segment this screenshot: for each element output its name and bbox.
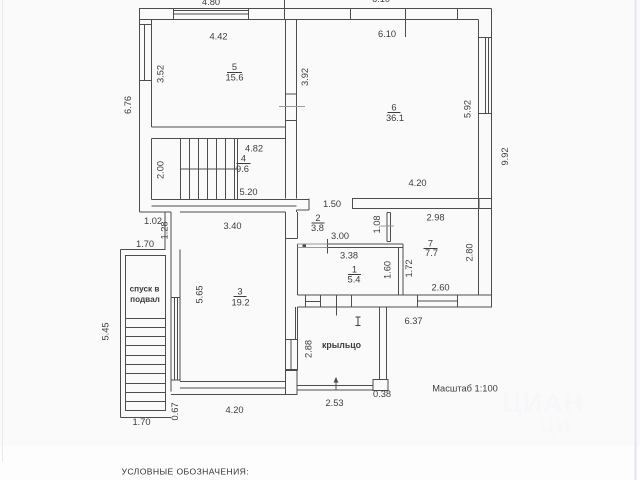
svg-text:7: 7 [428, 239, 433, 249]
basement stair treads [126, 318, 166, 320]
bottom wall top line [298, 294, 493, 296]
window W2 left wall cap top [140, 24, 152, 26]
dimension tick top [284, 0, 286, 20]
svg-text:19.2: 19.2 [231, 298, 249, 308]
faint page edge line right [635, 0, 637, 480]
room 1 top wall inner [328, 247, 404, 249]
window W3 cap top [171, 297, 180, 299]
window W5 panes [485, 38, 487, 114]
svg-text:ЦИ: ЦИ [540, 415, 571, 437]
svg-text:5.65: 5.65 [195, 285, 205, 303]
svg-text:5: 5 [232, 62, 237, 72]
wall top band outer [139, 8, 492, 10]
room 3 left wall outer [170, 250, 172, 392]
wall band left box end [308, 199, 310, 210]
porch bottom outer line [298, 389, 374, 391]
jog wall 1.28 outer [170, 212, 172, 250]
svg-text:2.00: 2.00 [155, 161, 165, 179]
window W4 pane [290, 340, 292, 370]
svg-text:5.20: 5.20 [239, 187, 257, 197]
svg-text:36.1: 36.1 [386, 113, 404, 123]
svg-text:1.08: 1.08 [372, 215, 382, 233]
svg-text:3.92: 3.92 [300, 68, 310, 86]
wall between rooms 5 and 6 right line [296, 20, 298, 199]
svg-text:4: 4 [241, 154, 246, 164]
room 3 bottom inner line [180, 381, 286, 383]
stair treads room 4 [180, 139, 182, 200]
basement box outer left [120, 250, 122, 418]
porch left wall lower [297, 307, 299, 371]
svg-text:6.76: 6.76 [123, 96, 133, 114]
svg-text:7.7: 7.7 [425, 248, 438, 258]
svg-text:3: 3 [237, 287, 242, 297]
door D1 jamb top [286, 93, 297, 95]
stair room bottom line [152, 199, 310, 201]
room 3 bottom mid line [180, 387, 286, 389]
basement box top 1.70 [121, 249, 166, 251]
window W3 panes [174, 298, 176, 381]
window W5 cap top [479, 37, 492, 39]
left exterior wall outer [139, 9, 141, 213]
svg-text:3.38: 3.38 [340, 251, 358, 261]
right exterior wall outer [491, 9, 493, 308]
wall between rooms 5 and 6 left line [285, 20, 287, 199]
wall band room6-room7 box [353, 199, 480, 209]
door D2 leaf line [381, 225, 395, 227]
svg-text:ЦИАН: ЦИАН [502, 388, 584, 418]
svg-text:2.98: 2.98 [426, 213, 444, 223]
stair mid landing line [181, 168, 238, 170]
svg-text:2.88: 2.88 [304, 340, 314, 358]
window W3 cap bottom [171, 379, 180, 381]
svg-text:3.40: 3.40 [223, 221, 241, 231]
porch right wall outer [386, 307, 388, 380]
svg-text:1.50: 1.50 [323, 199, 341, 209]
dimension tick 3.00 [327, 239, 329, 254]
room 1 right wall inner [398, 248, 400, 296]
section tick I [336, 295, 338, 316]
room 3 top line [180, 211, 286, 213]
section tick room 6 [405, 9, 407, 38]
window W4 cap bottom [286, 369, 298, 371]
basement box outer bottom [121, 417, 172, 419]
svg-text:4.82: 4.82 [245, 144, 263, 154]
svg-text:6.37: 6.37 [404, 316, 422, 326]
svg-text:3.52: 3.52 [156, 65, 166, 83]
right exterior wall inner [478, 20, 480, 296]
svg-text:1: 1 [352, 265, 357, 275]
door D1 leaf line [279, 106, 305, 108]
svg-text:6.10: 6.10 [372, 0, 390, 4]
left exterior wall inner [151, 20, 153, 128]
window W5 cap bottom [479, 113, 492, 115]
junction box [286, 371, 298, 395]
svg-text:5.45: 5.45 [101, 322, 111, 340]
svg-text:крыльцо: крыльцо [322, 340, 362, 350]
svg-text:6.10: 6.10 [378, 29, 396, 39]
wall room3-porch left line [285, 212, 287, 371]
svg-text:2.53: 2.53 [325, 398, 343, 408]
svg-text:УСЛОВНЫЕ ОБОЗНАЧЕНИЯ:: УСЛОВНЫЕ ОБОЗНАЧЕНИЯ: [122, 467, 250, 477]
svg-text:спуск в: спуск в [130, 285, 160, 294]
door jamb room 1 [303, 244, 307, 249]
svg-text:3.8: 3.8 [311, 223, 324, 233]
wall cap [286, 238, 298, 240]
wall top band inner [139, 19, 479, 21]
svg-text:5.4: 5.4 [348, 275, 361, 285]
svg-text:4.20: 4.20 [225, 405, 243, 415]
wall band crossing right wall [479, 198, 492, 200]
entrance arrow [335, 381, 337, 390]
svg-text:1.60: 1.60 [383, 261, 393, 279]
room 3 left wall inner [179, 250, 181, 382]
wall top band left end [139, 9, 141, 20]
entrance arrow head [334, 377, 339, 383]
wall band left box bottom [297, 209, 310, 211]
svg-text:4.42: 4.42 [209, 32, 227, 42]
door D1 jamb bottom [286, 120, 297, 122]
svg-text:1.28: 1.28 [160, 221, 170, 239]
top band joint [457, 9, 459, 20]
section mark I [356, 317, 361, 326]
porch column box [373, 380, 388, 391]
svg-text:15.6: 15.6 [225, 73, 243, 83]
top band joint [350, 9, 352, 20]
door D3 room1 top wall light lines [298, 243, 328, 245]
svg-text:5.92: 5.92 [463, 100, 473, 118]
svg-text:1.70: 1.70 [136, 239, 154, 249]
room 1 right wall outer [402, 244, 404, 295]
svg-text:6: 6 [391, 103, 396, 113]
window W4 cap top [286, 339, 298, 341]
svg-text:0.67: 0.67 [170, 402, 180, 420]
svg-text:4.80: 4.80 [202, 0, 220, 7]
svg-text:1.72: 1.72 [404, 259, 414, 277]
porch right wall inner [379, 307, 381, 380]
jog wall bottom 1.02 [140, 211, 172, 213]
bottom wall joint [351, 295, 353, 307]
room 1 left wall [297, 244, 299, 295]
stair room 4 top line [152, 138, 286, 140]
svg-text:1.70: 1.70 [132, 417, 150, 427]
stairwell edge [237, 139, 239, 200]
door sill box room1-porch [305, 295, 307, 307]
svg-text:2: 2 [315, 213, 320, 223]
svg-text:9.92: 9.92 [500, 147, 510, 165]
wall line 5.20 [152, 205, 297, 207]
window W6 jambs [417, 295, 419, 307]
window W1 in top wall [173, 9, 175, 20]
wall stub 1.08 [386, 213, 388, 242]
room 5 bottom wall line [152, 126, 286, 128]
jog wall 1.28 inner [164, 212, 166, 250]
svg-text:Масштаб 1:100: Масштаб 1:100 [432, 384, 498, 394]
porch bottom inner line [298, 385, 374, 387]
svg-text:0.38: 0.38 [373, 389, 391, 399]
svg-text:9.6: 9.6 [236, 164, 249, 174]
window W6 mid line [418, 300, 458, 302]
faint page edge line left [2, 0, 4, 462]
bottom wall bottom line [298, 306, 493, 308]
svg-text:2.80: 2.80 [465, 243, 475, 261]
window W2 pane [144, 25, 146, 81]
basement box inner [126, 256, 166, 411]
svg-text:4.20: 4.20 [408, 178, 426, 188]
svg-text:подвал: подвал [130, 295, 160, 304]
room 3 bottom outer line [171, 394, 298, 396]
porch left wall second line [295, 307, 297, 340]
wall room3-porch right line upper [297, 212, 299, 239]
room 1 top wall outer [328, 243, 404, 245]
svg-text:2.60: 2.60 [431, 283, 449, 293]
svg-text:3.00: 3.00 [331, 231, 349, 241]
window W2 cap bottom [140, 80, 152, 82]
